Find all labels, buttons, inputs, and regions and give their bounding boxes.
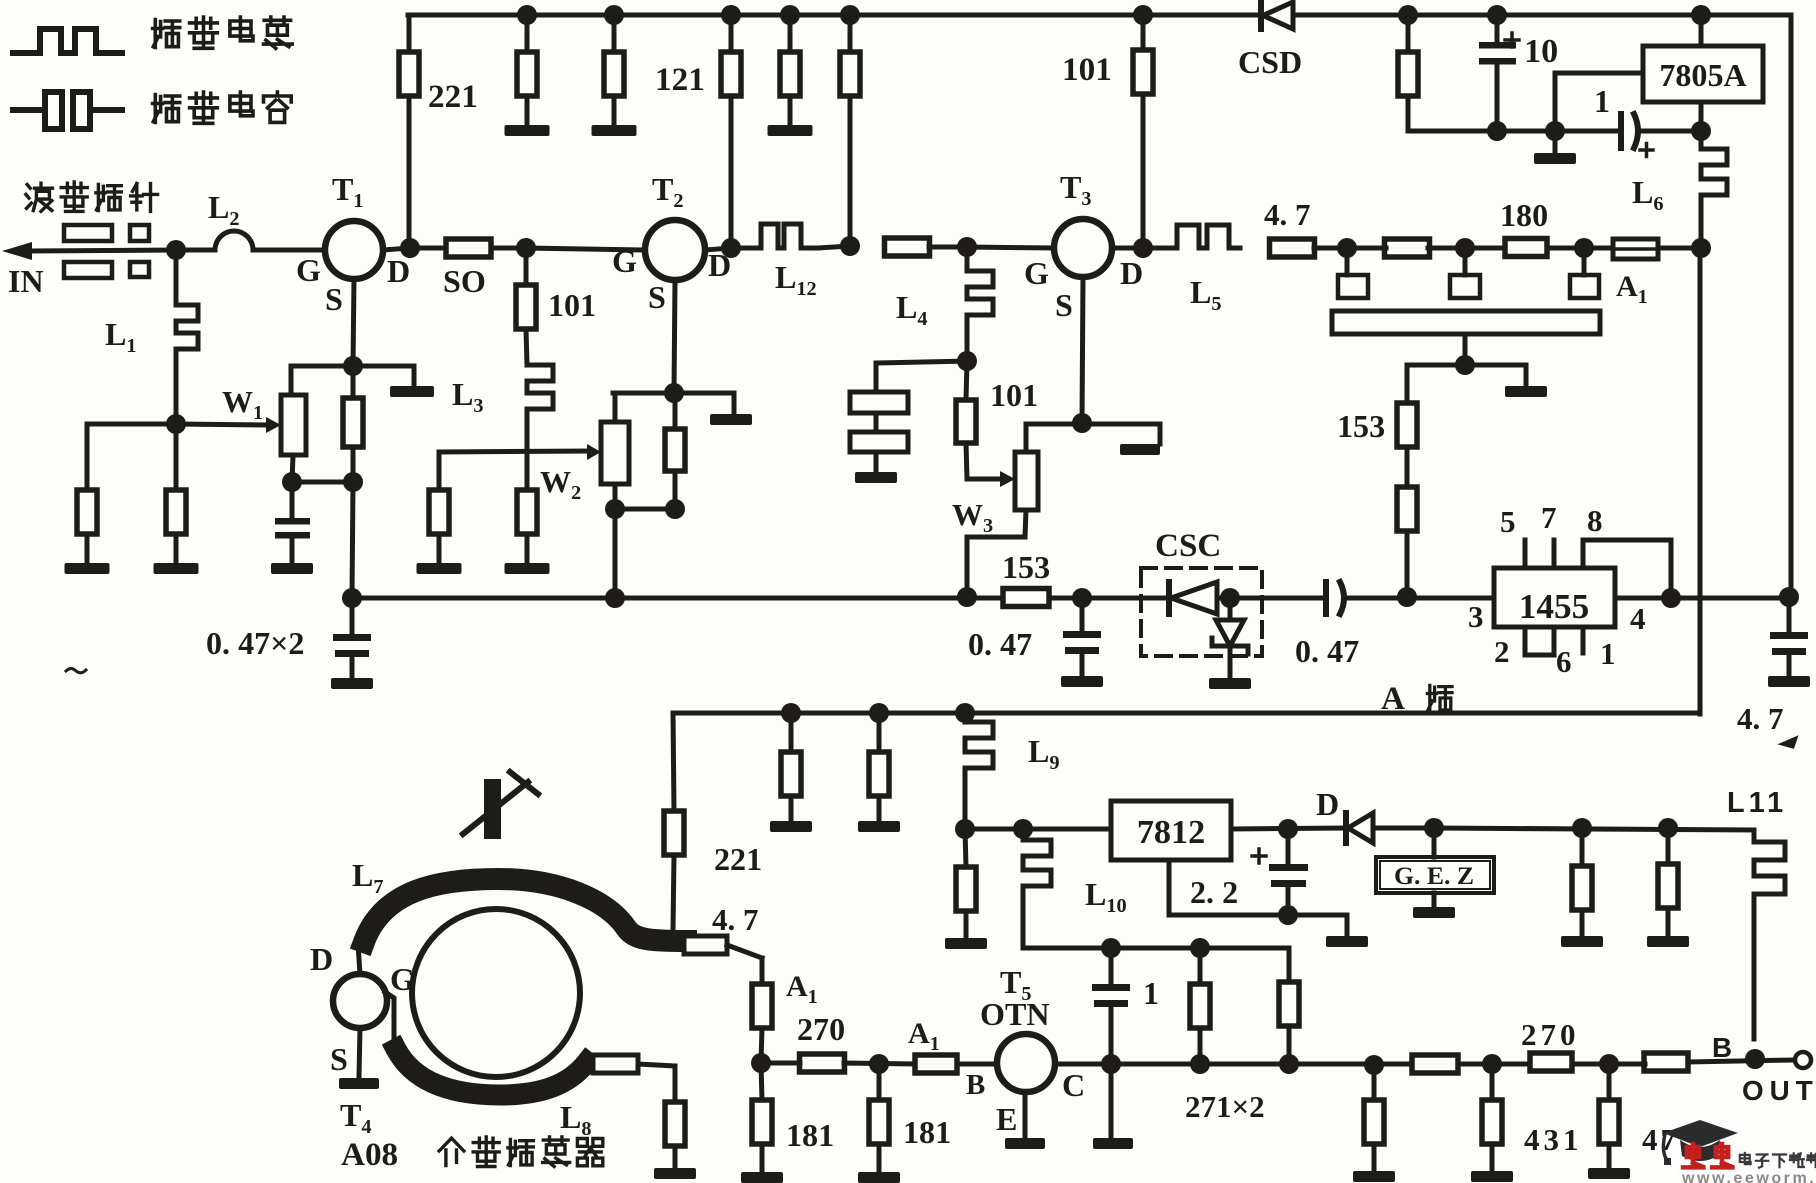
svg-text:S: S bbox=[1055, 287, 1073, 323]
svg-text:221: 221 bbox=[714, 841, 762, 877]
node x1023 y829 bbox=[1013, 819, 1033, 839]
node top rail x1143 bbox=[1133, 5, 1153, 25]
svg-text:D: D bbox=[1120, 255, 1143, 291]
resistor 221 (osc) bbox=[664, 811, 684, 855]
svg-text:431: 431 bbox=[1524, 1122, 1583, 1157]
svg-text:OTN: OTN bbox=[980, 996, 1050, 1032]
label B (out) bbox=[1712, 1032, 1732, 1063]
label G (T3) bbox=[1024, 255, 1049, 291]
wire L2 to T1 gate bbox=[253, 248, 325, 253]
ground x176 bbox=[154, 534, 199, 574]
pin 5 stub bbox=[1523, 540, 1528, 568]
wire W3 bottom bbox=[967, 510, 1026, 597]
node x353 y482 bbox=[343, 472, 363, 492]
label 0.47x2 bbox=[206, 625, 304, 661]
resistor SO bbox=[446, 239, 491, 257]
svg-text:B: B bbox=[966, 1069, 985, 1101]
wire left branch bbox=[87, 424, 176, 490]
node top rail x790 bbox=[780, 5, 800, 25]
node T3 drain bbox=[1133, 238, 1153, 258]
node A-line x965 bbox=[955, 703, 975, 723]
label D (T2) bbox=[708, 247, 731, 283]
wire IN to L2 bbox=[176, 248, 215, 253]
label 181 (left) bbox=[786, 1117, 834, 1153]
resistor x675 bbox=[665, 1102, 685, 1146]
node T2 S bbox=[664, 383, 684, 403]
ground x1374 bbox=[1353, 1144, 1395, 1182]
bus wire bbox=[352, 596, 1789, 601]
node top rail x850 bbox=[840, 5, 860, 25]
node bus x1403 bbox=[1397, 587, 1417, 607]
ground corner x1347 bbox=[1326, 915, 1368, 947]
wire to L12 bbox=[731, 246, 761, 251]
resistor to ground x790 bbox=[768, 15, 813, 136]
node top rail x731 bbox=[721, 5, 741, 25]
label 181 (right) bbox=[903, 1114, 951, 1150]
label IN bbox=[8, 263, 44, 299]
node x1288 y829 bbox=[1278, 819, 1298, 839]
resistor 271 right bbox=[1279, 982, 1299, 1064]
resistor x1668 bbox=[1658, 828, 1678, 908]
wire to T3 gate bbox=[967, 247, 1054, 248]
svg-text:G: G bbox=[390, 961, 415, 997]
wire W2 to bus bbox=[613, 509, 618, 598]
svg-text:SO: SO bbox=[443, 263, 486, 299]
waveguide probe microstrip pads bbox=[64, 225, 149, 278]
capacitor 1 (T5) bbox=[1092, 948, 1130, 1063]
label 1 bbox=[1600, 636, 1616, 671]
node CSC bbox=[1220, 588, 1240, 608]
ground x527 bbox=[505, 534, 550, 574]
watermark logo cap bbox=[1663, 1120, 1738, 1165]
resistor A1 (base) bbox=[915, 1055, 957, 1073]
wire L8 resistor out bbox=[638, 1064, 675, 1102]
electrolytic cap (7812 out) bbox=[1252, 829, 1308, 915]
node +5 x1497 bbox=[1487, 121, 1507, 141]
label 6 bbox=[1556, 644, 1572, 679]
wire W1-S link bbox=[292, 480, 353, 485]
wire cross y452 bbox=[439, 451, 592, 452]
legend microstrip capacitor symbol bbox=[13, 92, 122, 129]
A-line wire bbox=[673, 711, 1700, 716]
node x967 (L4 tap) bbox=[957, 237, 977, 257]
label T3 bbox=[1060, 169, 1092, 210]
svg-text:D: D bbox=[387, 253, 410, 289]
potentiometer W2 bbox=[587, 422, 629, 484]
pin 2-6 link bbox=[1525, 627, 1554, 655]
label D (diode) bbox=[1316, 786, 1339, 822]
label 153 (bus) bbox=[1002, 549, 1050, 585]
top supply rail bbox=[408, 13, 1791, 18]
wire A1 to line bbox=[761, 1028, 762, 1063]
svg-text:101: 101 bbox=[990, 377, 1038, 413]
svg-text:221: 221 bbox=[428, 78, 478, 115]
microstrip inductor L2 loop bbox=[215, 231, 253, 250]
svg-text:153: 153 bbox=[1337, 408, 1385, 444]
wire 7805A out bbox=[1699, 102, 1704, 131]
ground x966 bbox=[945, 911, 987, 949]
label A08 bbox=[341, 1136, 398, 1173]
wire SO to node bbox=[491, 246, 526, 251]
wire T3 S crossbar bbox=[1026, 422, 1160, 427]
resistor series x1435 bbox=[1412, 1055, 1458, 1073]
label L2 bbox=[208, 189, 240, 230]
label L8 bbox=[560, 1099, 592, 1140]
label W3 bbox=[952, 497, 993, 537]
wire T4 D bbox=[358, 944, 360, 974]
wire long vertical to A-line bbox=[1698, 248, 1703, 714]
microstrip inductor L11 bbox=[1754, 830, 1785, 1039]
node x761 bbox=[751, 1053, 771, 1073]
CSC dashed box bbox=[1141, 568, 1262, 656]
legend label 微带电容 bbox=[153, 92, 292, 123]
wire to W3 wiper bbox=[966, 443, 1015, 487]
label 2.2 bbox=[1190, 874, 1238, 910]
resistor 4.7 series bbox=[1270, 239, 1315, 257]
svg-text:1: 1 bbox=[1600, 636, 1616, 671]
label A-line bbox=[1381, 680, 1452, 717]
transistor T3 bbox=[1054, 219, 1112, 277]
transistor T1 bbox=[325, 221, 383, 279]
capacitor 0.47 (shunt) bbox=[1061, 598, 1103, 687]
node gate T2 bbox=[516, 238, 536, 258]
wire S crossbar T2 bbox=[613, 391, 734, 396]
wire S to bus bbox=[352, 482, 353, 598]
label OUT bbox=[1742, 1075, 1816, 1106]
wire bbox=[1428, 246, 1505, 251]
node x292 y482 bbox=[282, 472, 302, 492]
microstrip inductor L3 bbox=[527, 365, 553, 452]
svg-text:D: D bbox=[310, 941, 333, 977]
gnd link line bbox=[1169, 913, 1347, 918]
wire 7812 out bbox=[1231, 828, 1346, 829]
stub square x1584 bbox=[1570, 248, 1599, 298]
svg-text:7805A: 7805A bbox=[1659, 57, 1746, 93]
resistor 270 (out) bbox=[1530, 1053, 1572, 1071]
resistor A1 (vert) bbox=[752, 984, 772, 1028]
svg-text:2: 2 bbox=[1494, 634, 1510, 669]
resistor feed T3 gate line bbox=[840, 15, 860, 246]
ground x791 bbox=[770, 796, 812, 832]
capacitor 0.47x2 bbox=[331, 598, 373, 689]
node main line x175 bbox=[166, 240, 186, 260]
label 101 (T2) bbox=[548, 287, 596, 323]
wire diode out bbox=[1373, 826, 1434, 831]
IN arrow bbox=[2, 242, 176, 260]
label 4 bbox=[1630, 601, 1646, 636]
label D (T4) bbox=[310, 941, 333, 977]
node x1609 bbox=[1599, 1054, 1619, 1074]
label G (T1) bbox=[296, 252, 321, 288]
mark bbox=[1782, 738, 1796, 747]
wire to stub caps bbox=[876, 361, 967, 392]
IC 1455 box bbox=[1494, 568, 1615, 627]
wire 12V link down bbox=[1021, 922, 1026, 948]
ground x879 bbox=[858, 796, 900, 832]
capacitor 0.47 series bbox=[1326, 582, 1344, 614]
node bus x615 bbox=[605, 588, 625, 608]
node gate T2 resistor drop bbox=[524, 248, 529, 285]
wire T1 D to node bbox=[383, 248, 410, 250]
stub bar to node bbox=[1463, 334, 1468, 365]
node x1668 y828 bbox=[1658, 818, 1678, 838]
svg-text:4. 7: 4. 7 bbox=[1264, 197, 1311, 232]
diode CSC series bbox=[1169, 582, 1217, 614]
node +5 x1701 bbox=[1691, 121, 1711, 141]
+5V line bbox=[1408, 129, 1701, 134]
label T5 bbox=[1000, 964, 1032, 1005]
wire T3 S down bbox=[1082, 277, 1083, 423]
resistor 101 (W3) bbox=[956, 361, 976, 443]
svg-text:G: G bbox=[612, 243, 637, 279]
svg-text:101: 101 bbox=[1062, 51, 1112, 88]
microstrip inductor L10 bbox=[1023, 829, 1051, 922]
ground 181 left bbox=[741, 1144, 783, 1183]
label A1 (base) bbox=[908, 1017, 940, 1055]
label L7 bbox=[352, 857, 384, 898]
label G (T4) bbox=[390, 961, 415, 997]
ground T3 S bbox=[1120, 424, 1160, 455]
resistor 270 (T5 base) bbox=[800, 1054, 845, 1072]
ground 431 bbox=[1471, 1144, 1513, 1182]
node bus x1082 bbox=[1072, 588, 1092, 608]
wire T1 S down bbox=[353, 279, 354, 366]
node x1111 y1064 bbox=[1101, 1054, 1121, 1074]
label L3 bbox=[452, 376, 484, 417]
wire link bbox=[615, 507, 675, 512]
svg-text:6: 6 bbox=[1556, 644, 1572, 679]
ground x439 bbox=[417, 534, 462, 574]
label L11 bbox=[1727, 787, 1787, 819]
label 180 bbox=[1500, 197, 1548, 233]
svg-text:0. 47×2: 0. 47×2 bbox=[206, 625, 304, 661]
watermark 虫虫 bbox=[1683, 1144, 1732, 1167]
resistor 153 lower bbox=[1397, 447, 1417, 597]
svg-text:S: S bbox=[325, 281, 343, 317]
node x850 bbox=[840, 236, 860, 256]
wire to SO bbox=[410, 246, 446, 251]
svg-text:4. 7: 4. 7 bbox=[712, 902, 759, 937]
ground x1668 bbox=[1647, 908, 1689, 947]
label 153 (mid) bbox=[1337, 408, 1385, 444]
label 3 bbox=[1468, 599, 1484, 634]
node x879 bbox=[869, 1054, 889, 1074]
resistor series x1407 bbox=[1385, 239, 1430, 257]
label A1 (vert) bbox=[786, 970, 818, 1008]
label W2 bbox=[540, 464, 581, 504]
ground 181 right bbox=[858, 1144, 900, 1183]
label SO bbox=[443, 263, 486, 299]
wire to W1 top bbox=[289, 366, 294, 395]
svg-text:181: 181 bbox=[903, 1114, 951, 1150]
label G (T2) bbox=[612, 243, 637, 279]
resistor right of W2 bbox=[665, 393, 685, 509]
label L10 bbox=[1085, 876, 1127, 917]
microstrip capacitor stack lower bbox=[850, 413, 908, 452]
svg-text:S: S bbox=[330, 1041, 348, 1077]
svg-text:G: G bbox=[296, 252, 321, 288]
label 波导探针 bbox=[26, 182, 158, 211]
legend microstrip inductor symbol bbox=[13, 29, 122, 53]
label D (T3) bbox=[1120, 255, 1143, 291]
svg-text:E: E bbox=[996, 1101, 1017, 1137]
node T3 S bbox=[1072, 413, 1092, 433]
svg-text:G. E. Z: G. E. Z bbox=[1394, 861, 1474, 890]
svg-text:4. 7: 4. 7 bbox=[1737, 701, 1784, 736]
svg-text:270: 270 bbox=[1521, 1017, 1580, 1052]
node top rail x1408 bbox=[1398, 5, 1418, 25]
label 8 bbox=[1587, 503, 1603, 538]
wire out line bbox=[1434, 828, 1754, 830]
label 1 (cap) bbox=[1594, 83, 1610, 119]
node x1584 bbox=[1574, 238, 1594, 258]
terminal OUT bbox=[1795, 1052, 1811, 1068]
svg-text:4: 4 bbox=[1630, 601, 1646, 636]
label S (T3) bbox=[1055, 287, 1073, 323]
svg-text:7812: 7812 bbox=[1137, 814, 1205, 851]
resistor x527 under L3 bbox=[517, 452, 537, 534]
label E (T5) bbox=[996, 1101, 1017, 1137]
resistor x791 bbox=[781, 713, 801, 796]
label 271x2 bbox=[1185, 1089, 1265, 1124]
wire bar node left/right bbox=[1407, 363, 1526, 368]
node B out bbox=[1745, 1049, 1765, 1069]
svg-text:1: 1 bbox=[1143, 975, 1159, 1011]
resistor 101 (T2 gate) bbox=[516, 285, 536, 329]
wire to L6 node bbox=[1658, 246, 1701, 251]
label L6 bbox=[1632, 174, 1664, 215]
stub square x1465 bbox=[1450, 248, 1480, 298]
resistor 153 (bus) bbox=[1003, 589, 1049, 607]
svg-text:www.eeworm.com: www.eeworm.com bbox=[1681, 1169, 1816, 1183]
svg-text:1: 1 bbox=[1594, 83, 1610, 119]
resistor (gate T3) bbox=[885, 238, 930, 256]
zener diode CSC bbox=[1209, 598, 1251, 689]
label 270 (T5) bbox=[797, 1011, 845, 1047]
legend label 微带电感 bbox=[153, 17, 293, 48]
label OTN bbox=[980, 996, 1050, 1032]
label T1 bbox=[332, 171, 364, 212]
pin 1 stub bbox=[1581, 627, 1586, 653]
node x675 y509 bbox=[665, 499, 685, 519]
node x1111 y948 bbox=[1101, 938, 1121, 958]
wire T3 D to node bbox=[1112, 246, 1143, 251]
svg-text:L11: L11 bbox=[1727, 787, 1787, 819]
resistor 431 bbox=[1482, 1064, 1502, 1144]
label 121 bbox=[655, 61, 705, 98]
ground x87 bbox=[65, 534, 110, 574]
potentiometer W3 bbox=[1015, 452, 1038, 510]
wire 7812 gnd pin bbox=[1167, 860, 1172, 915]
node top rail x527 bbox=[517, 5, 537, 25]
diode D bbox=[1346, 813, 1373, 843]
label 10 bbox=[1524, 33, 1558, 70]
microstrip inductor L12 bbox=[761, 224, 818, 248]
svg-text:271×2: 271×2 bbox=[1185, 1089, 1265, 1124]
label C (T5) bbox=[1062, 1067, 1085, 1103]
svg-text:153: 153 bbox=[1002, 549, 1050, 585]
resistor 181 left bbox=[752, 1063, 772, 1144]
node x1582 y828 bbox=[1572, 818, 1592, 838]
node x1492 bbox=[1482, 1054, 1502, 1074]
wire T5 E bbox=[1023, 1092, 1028, 1136]
pin 7 stub bbox=[1552, 540, 1557, 568]
12V bottom line bbox=[1023, 946, 1289, 951]
wire T4 S bbox=[359, 1028, 360, 1076]
node bus x1789 bbox=[1779, 587, 1799, 607]
corner x1289 bbox=[1287, 948, 1292, 982]
svg-text:270: 270 bbox=[797, 1011, 845, 1047]
svg-text:0. 47: 0. 47 bbox=[1295, 633, 1359, 669]
node T1 S bbox=[343, 356, 363, 376]
label L9 bbox=[1028, 733, 1060, 774]
wire down to 153 bbox=[1405, 365, 1410, 403]
resistor 221 (top left) bbox=[399, 52, 419, 96]
resistor under T1 S bbox=[343, 366, 363, 482]
resistor 181 right bbox=[869, 1064, 889, 1144]
wire cap1 gnd bbox=[1109, 1064, 1114, 1136]
capacitor 4.7 (right) bbox=[1768, 597, 1810, 687]
svg-text:S: S bbox=[648, 279, 666, 315]
transistor T4 bbox=[333, 974, 387, 1028]
stub square x1347 bbox=[1338, 248, 1368, 298]
svg-text:1455: 1455 bbox=[1519, 587, 1590, 626]
node A-line x879 bbox=[869, 703, 889, 723]
node x1374 y1064 bbox=[1364, 1055, 1384, 1075]
wire right edge drop bbox=[1789, 15, 1794, 597]
ground right of bar bbox=[1505, 365, 1547, 397]
label 101 (top) bbox=[1062, 51, 1112, 88]
label 1 (T5 cap) bbox=[1143, 975, 1159, 1011]
svg-text:8: 8 bbox=[1587, 503, 1603, 538]
resistor x1408 to +line bbox=[1398, 15, 1418, 131]
series capacitor 1 bbox=[1621, 114, 1653, 157]
microstrip inductor L1 bbox=[176, 250, 198, 424]
microstrip inductor L6 bbox=[1701, 131, 1727, 248]
capacitor under W1 bbox=[271, 482, 313, 574]
label 221 (osc) bbox=[714, 841, 762, 877]
label L5 bbox=[1190, 274, 1222, 315]
svg-text:A08: A08 bbox=[341, 1136, 398, 1173]
label 221 bbox=[428, 78, 478, 115]
wire 7805A gnd pin bbox=[1555, 73, 1643, 131]
thick microstrip L8 bbox=[396, 1049, 587, 1095]
label 0.47 (right) bbox=[1295, 633, 1359, 669]
thick microstrip L7 bbox=[364, 879, 686, 942]
svg-text:CSD: CSD bbox=[1238, 44, 1302, 80]
regulator 7805A box bbox=[1643, 46, 1763, 102]
label L4 bbox=[896, 289, 928, 330]
label 介质振荡器 bbox=[439, 1137, 603, 1167]
label T4 bbox=[340, 1097, 372, 1138]
resistor x1582 bbox=[1572, 828, 1592, 910]
label CSC bbox=[1155, 527, 1221, 564]
wire 4.7 to A1 bbox=[727, 945, 762, 984]
wire bbox=[1314, 246, 1386, 251]
label 4.7 (osc) bbox=[712, 902, 759, 937]
wire S crossbar bbox=[291, 364, 414, 369]
resistor feed T2 drain bbox=[721, 15, 741, 247]
bottom line wire bbox=[761, 1060, 1793, 1064]
node x175 y424 bbox=[166, 414, 186, 434]
ground under caps bbox=[855, 452, 897, 483]
label CSD bbox=[1238, 44, 1302, 80]
node x1701 main line bbox=[1691, 238, 1711, 258]
resistor series x1666 bbox=[1644, 1053, 1688, 1071]
svg-text:2. 2: 2. 2 bbox=[1190, 874, 1238, 910]
wire left drop to T1 drain bbox=[407, 15, 412, 247]
transistor T2 bbox=[645, 220, 705, 280]
